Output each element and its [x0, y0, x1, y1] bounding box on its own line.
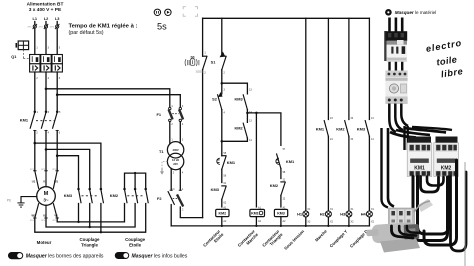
lamp H3 — [340, 208, 354, 226]
svg-text:24V: 24V — [173, 162, 178, 166]
lamp H4 branch with contact KM3 — [357, 18, 375, 211]
photo motor breaker body — [384, 31, 407, 62]
photo breaker to contactor stubs — [390, 62, 403, 71]
wire T1 secondary 1 — [170, 169, 172, 191]
photo long left wires — [382, 126, 408, 208]
node tap triangle 2 — [45, 148, 48, 151]
photo motor wires overlay — [392, 226, 421, 238]
node KM3p2 junction — [89, 226, 91, 228]
contactor KM3 pole 1 — [77, 188, 81, 203]
wire F2 to bottom bus — [170, 205, 172, 226]
label Marche rotated — [314, 228, 328, 242]
svg-text:KM1: KM1 — [286, 159, 295, 164]
node branch split — [246, 112, 249, 115]
wire stub out of motor 2 — [45, 205, 47, 218]
svg-text:U1: U1 — [32, 179, 36, 183]
svg-text:5s: 5s — [157, 22, 167, 32]
wire stub out of motor 1 — [35, 204, 39, 218]
terminal W1 — [52, 169, 59, 183]
wire stub into motor 2 — [45, 171, 47, 187]
label Contacteur Marche rotated — [237, 228, 260, 251]
fuse F2 pole 2 — [177, 188, 184, 212]
contact KM3 NC interlock — [211, 182, 227, 207]
svg-text:3 x 400 V + PE: 3 x 400 V + PE — [29, 7, 62, 13]
wire phase1 breaker to KM1 — [34, 72, 36, 111]
contact KM2 NO to KM1 coil feed — [222, 113, 253, 142]
svg-text:KM2: KM2 — [219, 212, 227, 216]
svg-text:Triangle: Triangle — [81, 242, 98, 247]
svg-text:W2: W2 — [31, 213, 36, 217]
timed contact KM1 NC 55-56 — [217, 141, 236, 182]
contactor KM2 pole 2 — [134, 188, 138, 203]
svg-text:Alimentation BT: Alimentation BT — [27, 2, 64, 8]
F2 mechanical link — [173, 198, 178, 200]
breaker Q1 trip dashed link — [23, 50, 61, 59]
label Contacteur Triangle rotated — [261, 228, 284, 251]
toggle masquer les infos bulles — [115, 252, 188, 260]
wire stub out of motor 3 — [53, 204, 57, 218]
wire motor lead 1 — [34, 131, 36, 171]
svg-text:Etoile: Etoile — [129, 242, 142, 247]
wire split to KM3 coil branch — [247, 113, 281, 145]
svg-text:3~: 3~ — [43, 198, 49, 203]
top rail — [203, 17, 370, 19]
svg-text:Moteur: Moteur — [37, 240, 52, 245]
wire F1 to T1 primary 2 — [179, 122, 181, 144]
pushbutton S0 icon — [185, 59, 199, 66]
svg-text:Masquer les infos bulles: Masquer les infos bulles — [132, 254, 188, 260]
svg-text:S1: S1 — [211, 60, 217, 65]
svg-text:S2: S2 — [212, 96, 218, 101]
wire motor lead 3 — [56, 131, 58, 171]
wire F1 to T1 primary 1 — [169, 122, 171, 143]
svg-text:Q1: Q1 — [11, 54, 17, 59]
photo thin wire right — [464, 162, 466, 266]
terminal XP2 — [39, 24, 49, 29]
photo breaker wires top — [390, 18, 403, 33]
KM1 mechanical link — [36, 120, 55, 122]
lamp H1 branch — [305, 18, 307, 211]
timed contact KM1 NO 57-58 — [276, 148, 295, 179]
node tap triangle 3 — [56, 154, 59, 157]
node tap control phase B — [56, 93, 59, 96]
contactor KM3 pole 3 — [100, 188, 104, 203]
photo motor chassis — [366, 199, 433, 253]
selection corner marks — [183, 7, 197, 17]
transformer T1 — [159, 142, 184, 170]
svg-text:V2: V2 — [54, 213, 58, 217]
terminal U2 — [41, 213, 48, 222]
pushbutton S0 tooltip dots — [196, 70, 202, 73]
svg-text:KM2: KM2 — [110, 193, 119, 198]
contact S0 NC on rail — [203, 52, 207, 75]
breaker Q1 pole 1 — [30, 55, 40, 73]
fuse F2 pole 1 — [168, 188, 175, 204]
svg-text:N: N — [173, 188, 175, 191]
svg-text:H4: H4 — [361, 211, 367, 216]
svg-text:KM3: KM3 — [277, 212, 285, 216]
star point bridge — [125, 173, 146, 188]
wire L1 drop — [34, 22, 36, 55]
terminal XP3 — [50, 24, 60, 29]
F1 mechanical link — [172, 113, 178, 115]
svg-text:KM3: KM3 — [211, 187, 220, 192]
photo terminal blocks — [389, 208, 415, 227]
svg-text:Masquer le matériel: Masquer le matériel — [395, 10, 436, 15]
wire stub into motor 1 — [35, 171, 39, 189]
breaker Q1 pole 3 — [52, 55, 62, 73]
wire tap to KM3 pole3 — [35, 143, 101, 188]
wire T1 secondary 2 — [179, 169, 181, 191]
node star bridge — [134, 172, 136, 174]
breaker Q1 pole 2 — [41, 55, 51, 73]
contactor KM2 pole 1 — [123, 188, 127, 203]
svg-text:KM2: KM2 — [270, 183, 279, 188]
contactor KM1 pole 3 — [53, 111, 61, 135]
svg-text:M: M — [44, 191, 49, 197]
coil KM2 — [216, 206, 229, 226]
svg-text:KM3: KM3 — [64, 193, 73, 198]
contactor KM1 pole 1 — [30, 111, 38, 135]
wire stub into motor 3 — [53, 171, 57, 189]
label Couplage D rotated — [349, 229, 369, 249]
lamp H4 — [361, 208, 375, 226]
wire KM1 coil branch — [255, 113, 257, 207]
svg-text:H3: H3 — [340, 211, 346, 216]
wire KM3 pole2 down — [89, 204, 91, 228]
terminal XP1 — [27, 24, 37, 29]
T1 screen ground arrow — [160, 162, 167, 175]
svg-text:S0: S0 — [190, 55, 194, 59]
photo wires below contactors — [413, 160, 466, 251]
wire L3 drop — [56, 22, 58, 55]
svg-text:(par défaut 5s): (par défaut 5s) — [69, 30, 104, 36]
fuse F1 pole 1 — [169, 105, 174, 126]
svg-text:KM2: KM2 — [234, 125, 243, 130]
wire KM3 pole3 down — [100, 204, 102, 233]
photo thermal relay body — [385, 71, 407, 105]
wire F2 to control rail — [180, 207, 202, 218]
svg-text:KM1: KM1 — [227, 160, 236, 165]
contactor KM1 pole 2 — [41, 111, 49, 135]
node tap control phase A — [45, 88, 48, 91]
wire phase3 breaker to KM1 — [56, 72, 58, 111]
svg-text:H2: H2 — [320, 211, 326, 216]
lamp H3 branch with contact KM2 — [336, 18, 354, 211]
KM3 mechanical link — [82, 195, 100, 197]
toggle masquer les bornes — [8, 252, 104, 260]
pause button — [154, 9, 160, 15]
wire tap A to F1 — [46, 89, 170, 108]
node KM3p3 junction — [100, 231, 102, 233]
svg-text:KM2: KM2 — [336, 127, 345, 132]
control rail — [202, 18, 204, 217]
photo wires below relay — [389, 104, 408, 133]
svg-text:U2: U2 — [43, 213, 47, 217]
fuse F1 pole 2 — [179, 105, 184, 126]
bottom bus — [171, 225, 369, 227]
terminal U1 — [30, 169, 37, 183]
node tap triangle 1 — [34, 142, 37, 145]
svg-text:PE: PE — [7, 199, 12, 203]
wire tap B to F1 — [57, 95, 180, 108]
node KM3p1 junction — [77, 221, 79, 223]
terminal V1 — [41, 169, 48, 183]
KM2 mechanical link — [127, 195, 144, 197]
motor M1 — [37, 187, 56, 206]
contact KM2 NC interlock — [270, 178, 286, 207]
node S1 bottom — [221, 82, 224, 85]
lamp H1 — [297, 208, 311, 226]
PE ground — [7, 197, 37, 208]
lamp H2 branch with contact KM1 — [316, 18, 334, 211]
node KM2 coil chain — [221, 140, 224, 143]
svg-text:H1: H1 — [297, 211, 303, 216]
photo contactor KM1 — [407, 137, 432, 177]
svg-text:Tempo de KM1 réglée à :: Tempo de KM1 réglée à : — [69, 24, 138, 30]
svg-text:12 VA: 12 VA — [172, 158, 179, 162]
svg-text:KM3: KM3 — [234, 96, 243, 101]
contact S2 NO start — [212, 83, 225, 141]
terminal W2 — [30, 213, 37, 222]
coil KM1 with timer — [250, 206, 265, 226]
contactor KM3 pole 2 — [88, 188, 92, 203]
wire KM3 pole1 down — [78, 204, 80, 222]
contact KM3 NO hold — [234, 89, 252, 115]
svg-text:KM3: KM3 — [357, 127, 366, 132]
photo contactor KM2 — [434, 137, 459, 177]
label Couplage Y rotated — [329, 229, 349, 249]
breaker Q1 handle — [11, 41, 28, 59]
label Sous tension rotated — [283, 228, 305, 250]
svg-text:400V: 400V — [172, 148, 178, 152]
contactor KM2 pole 3 — [144, 188, 148, 203]
wire tap to KM3 pole2 — [46, 149, 90, 188]
svg-text:KM1: KM1 — [20, 117, 29, 122]
svg-text:Masquer les bornes des apparei: Masquer les bornes des appareils — [26, 254, 104, 260]
wire to KM3 hold branch — [222, 83, 248, 94]
photo wire bundle above contactors — [390, 127, 452, 138]
wire motor lead 2 — [45, 131, 47, 171]
lamp H2 — [320, 208, 334, 226]
label Contacteur Etoile rotated — [202, 228, 225, 251]
wire L2 drop — [45, 22, 47, 55]
node bus junctions — [221, 225, 350, 227]
node KM1 coil tap — [255, 112, 258, 115]
wire tap to KM3 pole1 — [57, 156, 78, 188]
svg-text:KM1: KM1 — [316, 127, 325, 132]
contact S1 NC actuated — [220, 18, 227, 83]
wire coupling A V2-KM3p1-KM2p1 — [35, 204, 146, 233]
wire phase2 breaker to KM1 — [45, 72, 47, 111]
coil KM3 — [274, 206, 287, 226]
svg-text:KM1: KM1 — [251, 212, 258, 216]
play button — [165, 9, 171, 15]
toggle masquer le materiel — [385, 9, 436, 16]
terminal V2 — [52, 213, 59, 222]
